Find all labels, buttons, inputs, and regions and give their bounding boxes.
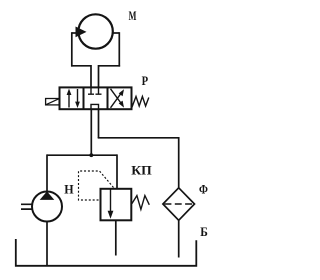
- valve P body: [60, 87, 132, 109]
- valve P left position down arrow: [77, 89, 79, 105]
- svg-text:Р: Р: [142, 74, 149, 88]
- wire: motor line B down to valve: [98, 65, 100, 88]
- wire: relief valve outlet to tank: [115, 220, 117, 255]
- wire: valve port P down to junction: [90, 109, 92, 155]
- valve P position divider right: [107, 87, 109, 109]
- wire: motor bracket right vertical: [118, 32, 120, 66]
- wire: motor line A down to valve: [90, 65, 92, 88]
- svg-text:Н: Н: [64, 183, 74, 197]
- wire: pressure line horizontal pump to relief valve: [47, 154, 117, 156]
- junction dot: [89, 153, 93, 157]
- valve P solenoid actuator: [46, 99, 60, 105]
- svg-text:М: М: [129, 9, 137, 23]
- wire: return line down to filter: [178, 137, 180, 189]
- wire: motor bracket left stub: [72, 32, 79, 34]
- svg-text:Ф: Ф: [199, 182, 208, 196]
- pump H drive shaft lines: [21, 204, 32, 209]
- valve P return spring: [132, 97, 149, 108]
- pump H outlet triangle: [40, 191, 55, 200]
- wire: filter outlet to tank: [178, 220, 180, 258]
- wire: bracket bottom left horizontal: [71, 65, 91, 67]
- svg-text:КП: КП: [131, 163, 152, 177]
- pump H circle: [32, 192, 62, 222]
- valve P centre position blocked port A stub: [88, 87, 94, 94]
- wire: bracket bottom right horizontal: [99, 65, 121, 67]
- svg-text:Б: Б: [200, 225, 208, 239]
- relief valve KP flow arrow: [110, 189, 112, 213]
- wire: valve port T down: [98, 109, 100, 138]
- motor M circle: [78, 14, 112, 48]
- valve P right position cross arrow 2: [111, 89, 123, 105]
- wire: return line horizontal to filter: [98, 137, 179, 139]
- wire: motor bracket right stub: [113, 32, 120, 34]
- valve P left position up arrow: [68, 92, 70, 108]
- filter F diamond: [163, 188, 195, 221]
- wire: pump riser: [46, 154, 48, 191]
- valve P centre position bottom bridge: [91, 104, 99, 109]
- relief valve KP body: [101, 189, 132, 221]
- relief valve KP spring: [132, 196, 150, 210]
- wire: pump suction to tank: [46, 222, 48, 267]
- motor M rotation triangle: [76, 27, 87, 38]
- filter F element (dashed diagonal): [165, 203, 194, 205]
- wire: relief valve drop: [116, 154, 118, 189]
- valve P right position cross arrow 1: [111, 92, 123, 108]
- valve P centre position blocked port B stub: [96, 87, 102, 94]
- tank B: [16, 239, 197, 266]
- relief valve KP pilot line (dashed): [79, 171, 114, 200]
- wire: motor bracket left vertical: [71, 32, 73, 66]
- valve P position divider left: [83, 87, 85, 109]
